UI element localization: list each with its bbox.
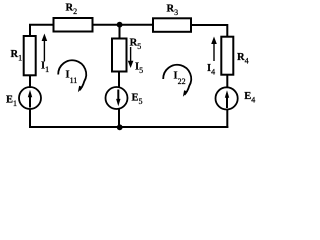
resistor R4 (221, 37, 233, 75)
source E4 (216, 87, 238, 109)
node top junction (117, 22, 123, 28)
loop current I22 (163, 65, 191, 97)
wire E5 to bottom rail (118, 109, 120, 128)
wire R1 to E1 (29, 75, 31, 88)
resistor R5 (112, 39, 127, 72)
wire R3 to right corner (190, 25, 227, 38)
current arrow I4 (211, 37, 217, 62)
wire R2 to R3 (93, 24, 154, 26)
current arrow I5 (128, 47, 134, 68)
node bottom junction (117, 124, 123, 130)
wire R4 to E4 (226, 75, 228, 89)
wire E4 to bottom rail (226, 110, 228, 129)
wire junction to R5 (119, 25, 121, 40)
resistor R1 (24, 36, 36, 75)
resistor R3 (153, 18, 191, 32)
source E5 (106, 87, 128, 109)
wire R5 to E5 (118, 71, 120, 88)
current arrow I1 (42, 34, 48, 62)
source E1 (19, 87, 41, 109)
resistor R2 (54, 18, 93, 32)
wire bottom rail (29, 126, 228, 128)
loop current I11 (58, 60, 86, 92)
wire left branch top corner (30, 25, 55, 37)
wire E1 to bottom rail (29, 109, 31, 128)
